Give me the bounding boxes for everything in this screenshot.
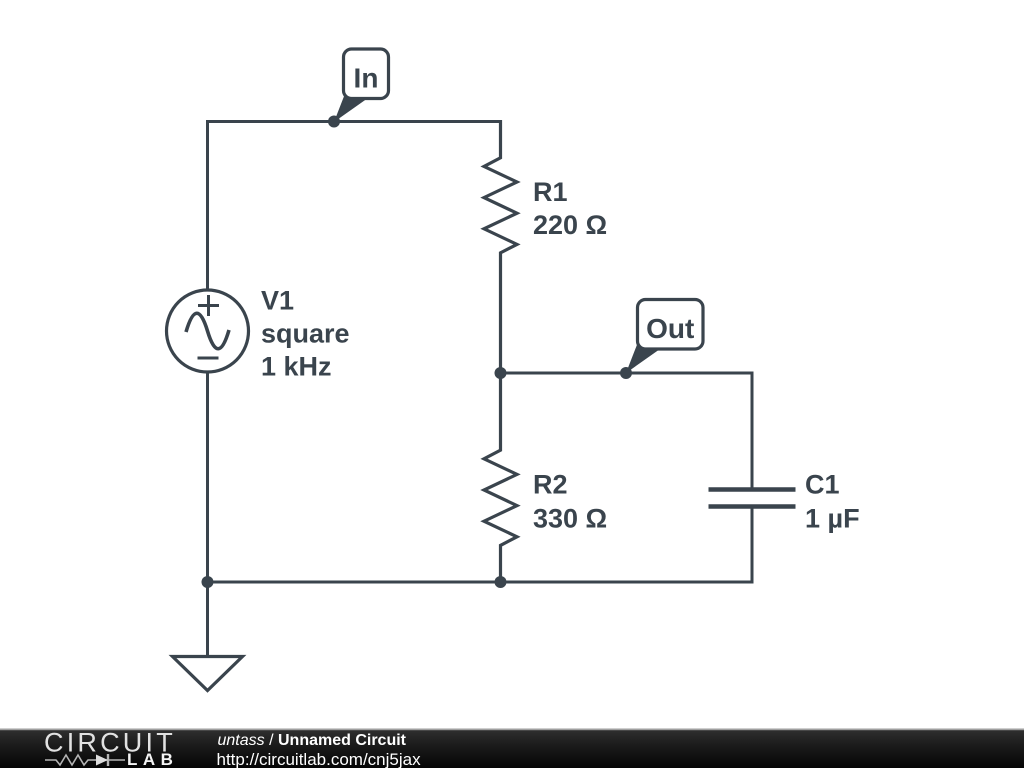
wire V1 bottom lead down to bottom rail — [206, 373, 209, 583]
svg-text:R2: R2 — [533, 470, 568, 500]
wire middle (Out net, R1/R2 junction to C1 top) — [501, 372, 753, 375]
ground — [173, 657, 243, 691]
svg-text:220 Ω: 220 Ω — [533, 210, 607, 240]
wire ground stem — [206, 582, 209, 657]
svg-text:LAB: LAB — [127, 750, 178, 768]
footer logo resistor-diode squiggle — [45, 754, 125, 766]
node In flag box — [344, 49, 389, 99]
wire top (V1 plus to R1 top, node In) — [208, 120, 501, 123]
R2 value label — [533, 470, 607, 534]
voltage source V1 — [167, 290, 249, 372]
resistor R1 — [484, 120, 517, 373]
svg-text:1 µF: 1 µF — [805, 504, 860, 534]
svg-text:http://circuitlab.com/cnj5jax: http://circuitlab.com/cnj5jax — [217, 750, 422, 768]
junction dot node Out — [620, 367, 632, 379]
svg-text:Out: Out — [646, 313, 694, 344]
capacitor C1 — [709, 490, 796, 507]
node Out flag tail — [626, 337, 660, 373]
svg-text:untass / Unnamed Circuit: untass / Unnamed Circuit — [218, 732, 407, 749]
footer bar — [0, 729, 1024, 768]
junction dot R1-R2-Out — [495, 367, 507, 379]
resistor R2 — [484, 373, 517, 582]
junction dot R2 bottom — [495, 576, 507, 588]
R1 value label — [533, 177, 607, 240]
svg-text:In: In — [354, 62, 379, 93]
wire bottom rail (ground net) — [206, 581, 752, 584]
wire left vertical (In node down to V1 top terminal) — [206, 120, 209, 290]
svg-text:V1: V1 — [261, 285, 294, 315]
svg-text:330 Ω: 330 Ω — [533, 504, 607, 534]
V1 value label — [261, 285, 350, 381]
node Out flag box — [638, 300, 704, 350]
junction dot node In — [328, 116, 340, 128]
C1 value label — [805, 470, 860, 534]
svg-text:1 kHz: 1 kHz — [261, 351, 332, 381]
junction dot V1-ground — [202, 576, 214, 588]
svg-text:square: square — [261, 318, 350, 348]
node In flag tail — [334, 86, 368, 122]
svg-text:C1: C1 — [805, 470, 840, 500]
wire C1 top lead — [751, 372, 754, 490]
svg-text:R1: R1 — [533, 177, 568, 207]
wire C1 bottom lead — [751, 507, 754, 584]
